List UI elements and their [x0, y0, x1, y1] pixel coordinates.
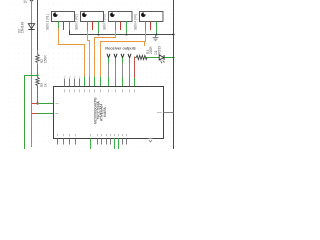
wire green bottom out2 — [114, 139, 116, 150]
wire orange signal s2 — [88, 31, 90, 78]
node junction green — [36, 74, 38, 76]
connector J1 pin1 — [107, 54, 110, 87]
svg-text:SEN 1 (#1): SEN 1 (#1) — [45, 14, 49, 30]
svg-text:IR333: IR333 — [157, 46, 161, 55]
ground — [153, 35, 159, 41]
wire red branch y113 — [32, 113, 38, 115]
svg-text:SEN 3 (#3): SEN 3 (#3) — [102, 14, 106, 30]
wire ground rail right — [173, 0, 175, 149]
svg-text:220R: 220R — [149, 46, 153, 54]
LED D1 — [159, 55, 164, 60]
IC right pin to rail — [164, 112, 174, 114]
IC U5 ATmega — [54, 87, 164, 139]
wire green bottom out3 — [118, 139, 120, 150]
label lone pin — [149, 138, 153, 140]
wire emitter bus dark — [70, 30, 174, 35]
wire green into IC pin y104 — [38, 103, 54, 105]
wire orange signal s4 — [101, 31, 146, 78]
resistor R2 — [36, 55, 39, 63]
IC top stub pins — [65, 79, 80, 87]
wire red LED drive — [134, 57, 136, 79]
wire green bottom out1 — [90, 139, 92, 150]
wire green between R2 R3 — [37, 63, 39, 77]
label right pin name inside — [157, 112, 162, 114]
wire +5V red rail — [31, 0, 33, 147]
label top pin numbers — [64, 76, 81, 78]
node junction red — [36, 102, 38, 104]
svg-text:1k: 1k — [44, 83, 48, 87]
wire green pin end LED drive — [134, 78, 136, 87]
IC bottom pins — [58, 139, 127, 145]
wire green D1 to rail — [164, 57, 173, 59]
node junction green rail — [173, 57, 175, 59]
node bus dot 156 — [156, 34, 158, 36]
connector J1 pin3 — [121, 54, 124, 87]
resistor R3 — [36, 78, 39, 86]
sensor U4 — [140, 12, 164, 35]
node bus dot 173 — [172, 33, 174, 35]
svg-text:Receiver outputs: Receiver outputs — [105, 45, 136, 50]
svg-text:150R: 150R — [44, 55, 48, 63]
wire orange signal s3 — [95, 31, 116, 78]
sensor U1 — [52, 12, 75, 31]
sensor U3 — [109, 12, 133, 34]
wire orange stub — [144, 42, 146, 47]
wire supply dark line — [37, 0, 39, 50]
connector J1 pin2 — [114, 54, 117, 87]
label left pin names inside — [56, 104, 59, 114]
svg-text:1N4148: 1N4148 — [21, 22, 25, 33]
wire orange signal s1 — [59, 28, 85, 77]
node top terminal — [30, 0, 33, 1]
svg-text:644PA: 644PA — [103, 107, 107, 117]
wire red VCC branch — [32, 103, 38, 105]
sensor U2 — [81, 12, 104, 34]
wire green branch left down — [25, 76, 38, 150]
wire green R1 left — [135, 57, 137, 59]
label top pin names inside — [65, 89, 135, 92]
node bus dot 126 — [126, 34, 128, 36]
wire green into IC pin y113 — [38, 113, 54, 115]
svg-text:SEN 2 (#2): SEN 2 (#2) — [74, 14, 78, 30]
svg-text:SEN 4 (#4): SEN 4 (#4) — [133, 14, 137, 30]
node bus dot 98 — [98, 34, 100, 36]
resistor R1 — [136, 55, 147, 59]
wire green above R2 — [37, 50, 39, 55]
wire green pin ends of signals — [85, 77, 101, 87]
IC lone bottom pin — [149, 140, 152, 142]
diode D2 — [28, 24, 34, 30]
connector J1 pin4 — [128, 54, 131, 87]
wire red below R3 — [37, 86, 39, 104]
wire green R1 to D1 — [146, 57, 159, 59]
label bottom pin names inside — [58, 134, 127, 136]
